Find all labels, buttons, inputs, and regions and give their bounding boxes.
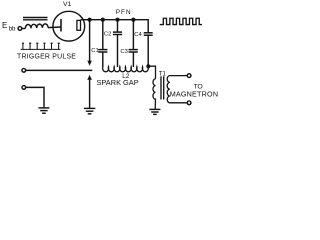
wire junction to T1 primary xyxy=(148,66,155,79)
transformer T1 primary xyxy=(153,79,156,110)
wire trigger ground leg xyxy=(26,87,44,107)
wire Ebb to charging coil xyxy=(22,28,26,30)
svg-text:PFN: PFN xyxy=(116,9,132,16)
tube V1 xyxy=(53,11,85,41)
inductor L2 xyxy=(103,67,149,72)
node junction dots on bus xyxy=(88,18,136,22)
svg-text:SPARK GAP: SPARK GAP xyxy=(97,78,139,87)
terminal trigger input top xyxy=(22,68,26,72)
ground T1 primary xyxy=(149,109,160,114)
svg-text:C3: C3 xyxy=(120,49,127,55)
ground spark gap xyxy=(84,108,95,113)
capacitor C1 xyxy=(91,20,107,67)
trigger pulse waveform xyxy=(21,43,61,49)
node L2/T1 junction xyxy=(146,64,150,68)
capacitor C2 xyxy=(104,20,122,67)
terminal Ebb xyxy=(18,27,22,31)
node Ebb label xyxy=(2,21,16,32)
terminal trigger input bottom xyxy=(22,86,26,90)
svg-text:L2: L2 xyxy=(122,73,130,80)
capacitor C3 xyxy=(120,20,137,67)
svg-text:MAGNETRON: MAGNETRON xyxy=(170,90,219,99)
terminal magnetron top xyxy=(187,74,191,78)
spark gap xyxy=(87,20,92,109)
waveform square wave output xyxy=(160,18,202,24)
wire PFN top bus xyxy=(90,20,149,33)
svg-text:T1: T1 xyxy=(159,71,167,77)
label TO MAGNETRON xyxy=(170,84,219,99)
svg-text:V1: V1 xyxy=(63,1,72,8)
svg-text:C2: C2 xyxy=(104,31,111,37)
wire trigger input to spark gap electrode xyxy=(26,69,93,71)
svg-text:TRIGGER PULSE: TRIGGER PULSE xyxy=(17,54,76,61)
wire V1 plate to bus xyxy=(81,19,90,21)
svg-text:C1: C1 xyxy=(91,48,98,54)
inductor charging impedance (iron core) xyxy=(23,18,48,29)
capacitor C4 xyxy=(134,32,152,66)
transformer T1 secondary xyxy=(167,76,187,103)
svg-text:C4: C4 xyxy=(134,32,142,38)
svg-text:E: E xyxy=(2,21,7,30)
transformer T1 core xyxy=(161,76,164,99)
wire coil to V1 cathode xyxy=(48,26,61,29)
ground trigger xyxy=(38,108,49,113)
terminal magnetron bottom xyxy=(187,101,191,105)
svg-text:bb: bb xyxy=(9,26,16,32)
